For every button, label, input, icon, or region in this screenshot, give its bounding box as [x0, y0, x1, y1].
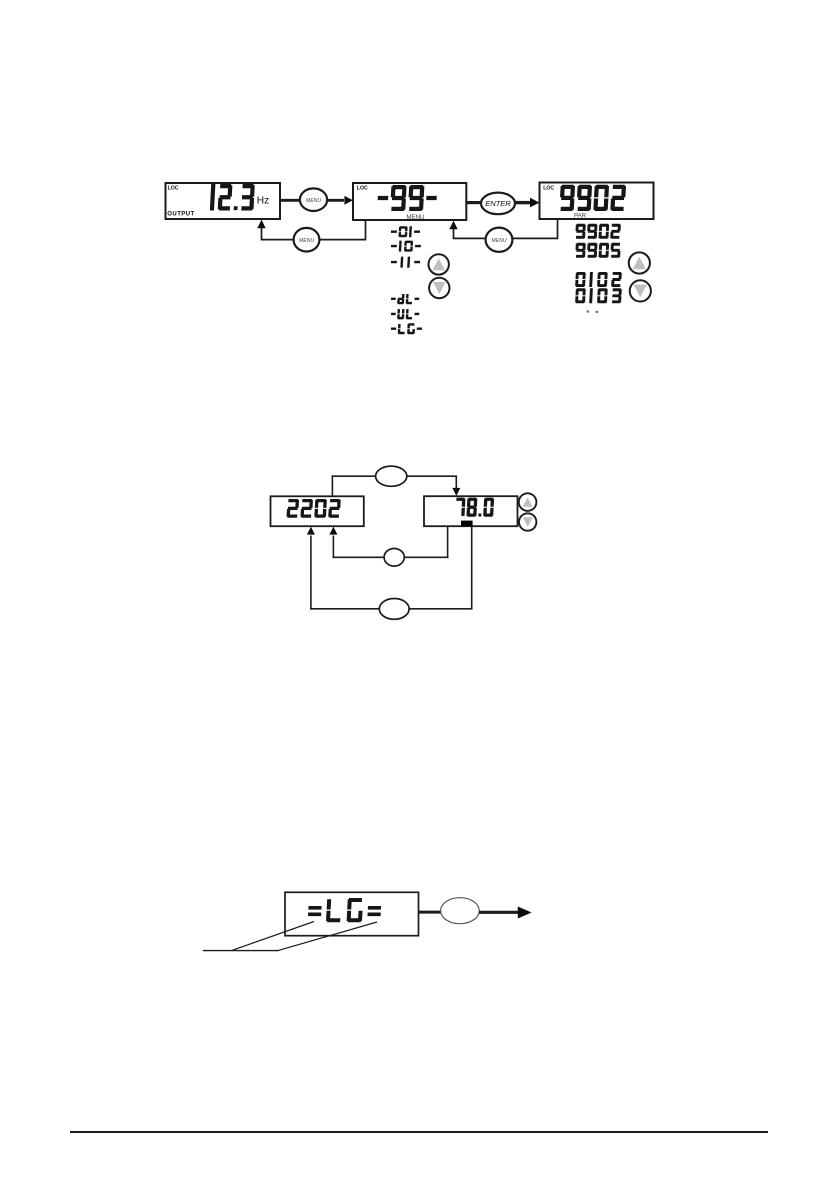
svg-text:LOC: LOC — [357, 186, 368, 192]
svg-text:Hz: Hz — [257, 196, 269, 207]
svg-text:MENU: MENU — [299, 238, 314, 244]
svg-text:LOC: LOC — [168, 186, 179, 192]
svg-text:OUTPUT: OUTPUT — [167, 211, 194, 217]
svg-text:PAR: PAR — [574, 212, 587, 219]
svg-text:ENTER: ENTER — [485, 199, 511, 208]
svg-text:MENU: MENU — [492, 238, 507, 244]
svg-text:MENU: MENU — [407, 214, 425, 221]
svg-text:MENU: MENU — [306, 198, 321, 204]
svg-text:LOC: LOC — [543, 185, 554, 191]
